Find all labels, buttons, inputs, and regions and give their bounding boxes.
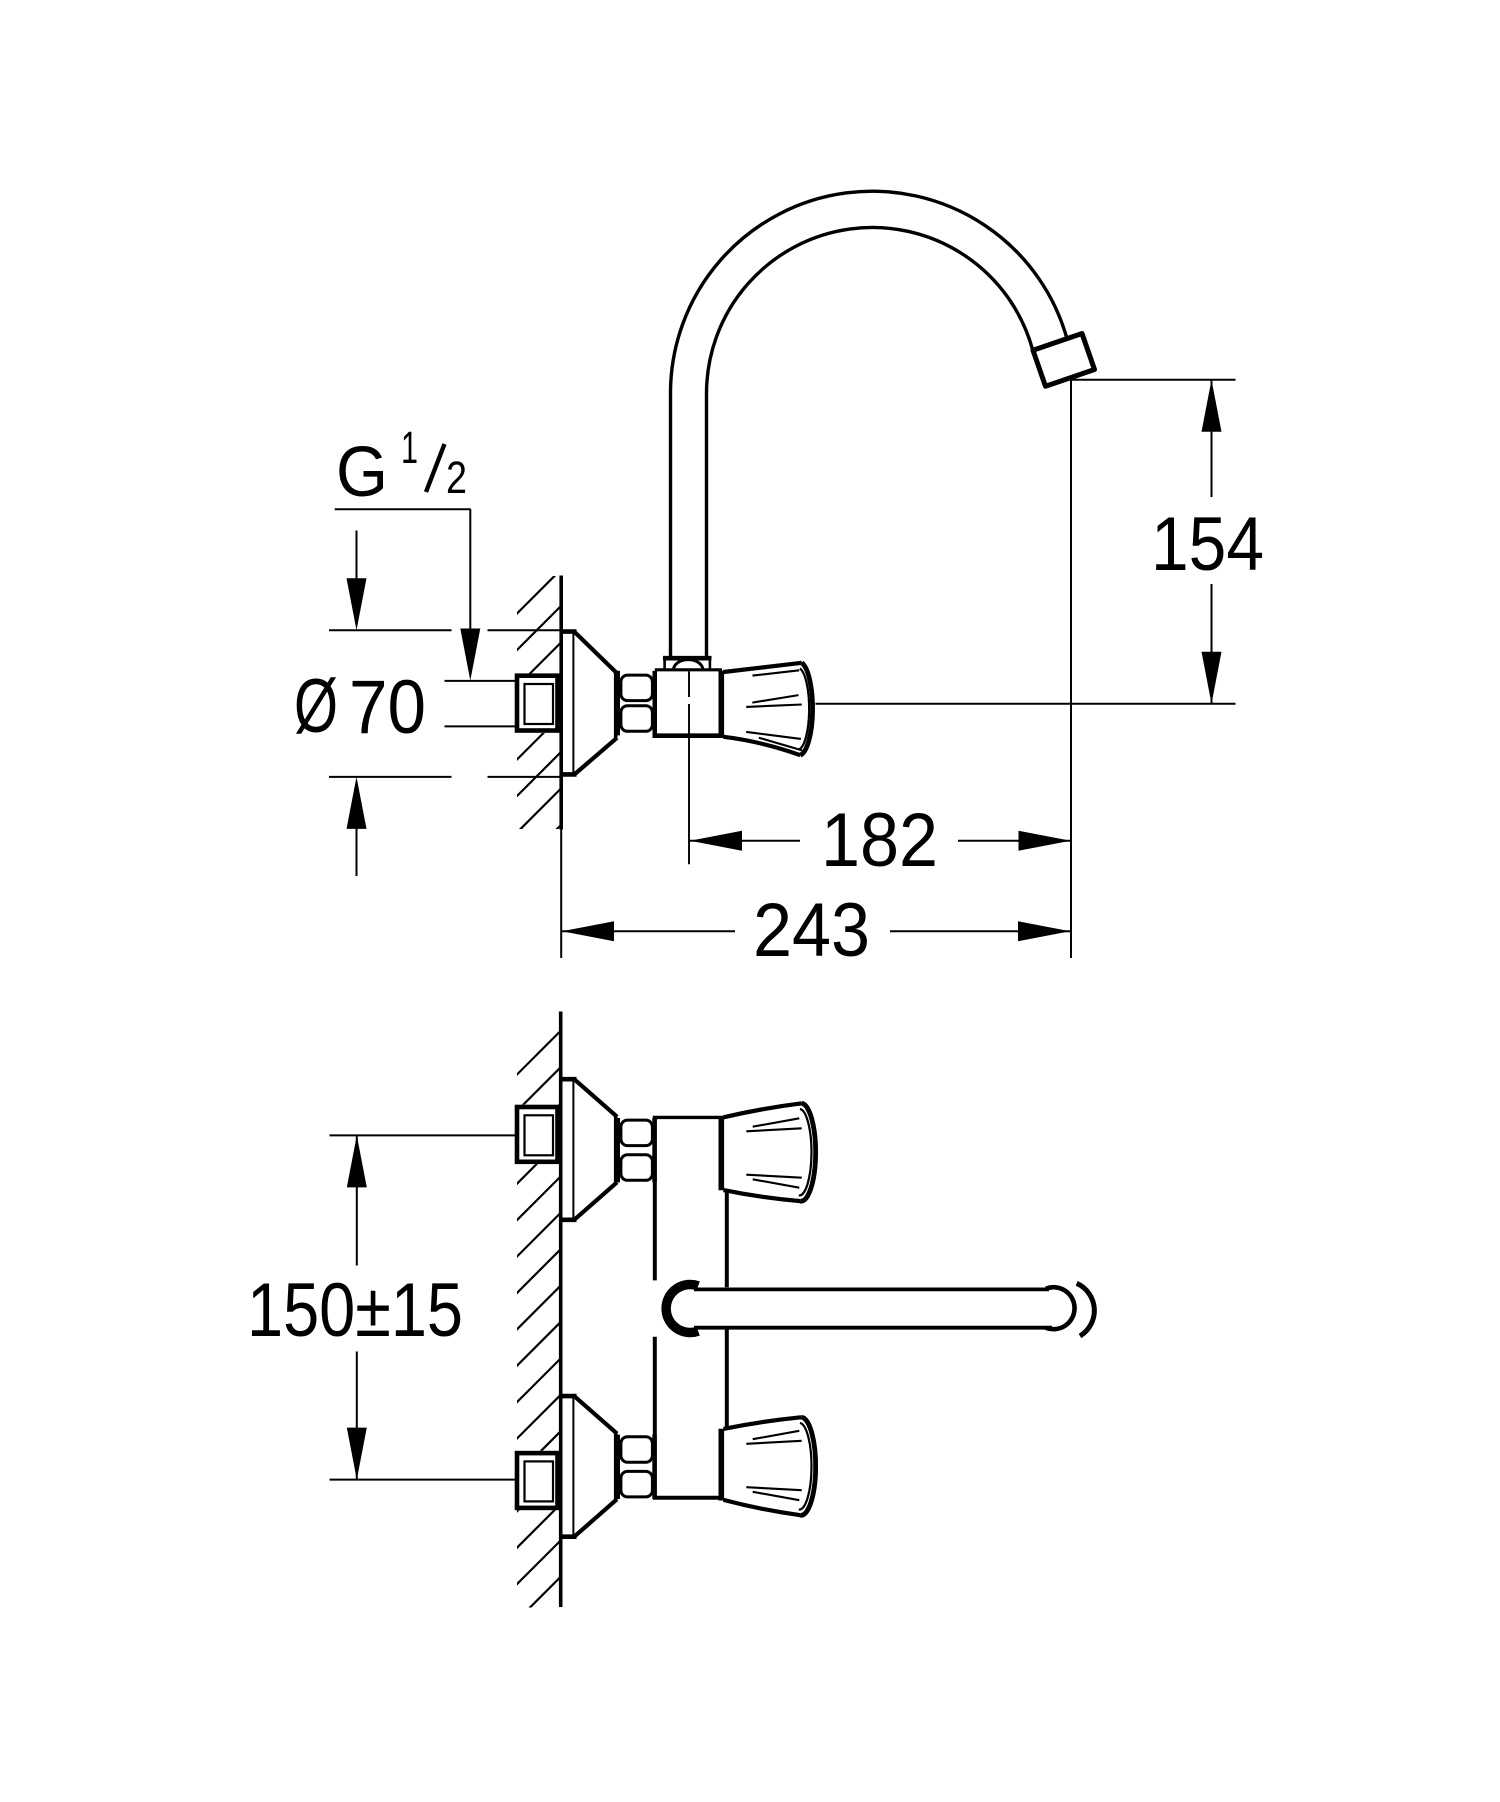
valve centre line [688, 672, 690, 865]
stub extension lines [445, 680, 517, 682]
243 dimension [560, 830, 562, 959]
escutcheon / rosette (upper view) [560, 630, 617, 776]
wall line (upper view) [559, 576, 563, 830]
gooseneck spout tube (outer edge) [670, 191, 1067, 657]
wall hatching (lower view) [516, 1030, 562, 1658]
154 dimension [1072, 379, 1236, 381]
escutcheon lower (plan view) [561, 1394, 616, 1538]
wall hatching (upper view) [516, 569, 562, 907]
handle lower (plan view) [724, 1417, 816, 1515]
handle upper (plan view) [724, 1103, 816, 1201]
union nut upper (plan view) [615, 1118, 620, 1182]
svg-text:182: 182 [821, 798, 938, 883]
svg-text:1: 1 [401, 422, 418, 473]
supply stub upper (plan view) [515, 1105, 560, 1165]
handle (upper view) [721, 663, 812, 755]
escutcheon extension lines (dia 70) [329, 629, 452, 631]
svg-text:154: 154 [1151, 502, 1264, 587]
union nut (upper view) [618, 671, 655, 736]
svg-text:Ø: Ø [294, 664, 338, 749]
valve body (upper view) [653, 670, 725, 736]
spout tube (plan view) [694, 1283, 1094, 1336]
150 +/- 15 dimension [330, 1134, 517, 1136]
svg-text:2: 2 [446, 452, 467, 503]
svg-text:70: 70 [349, 665, 426, 750]
dia 70 arrows [356, 531, 358, 587]
escutcheon upper (plan view) [561, 1078, 616, 1222]
G1/2 supply stub (upper view) [515, 674, 560, 734]
gooseneck spout tube (inner edge) [707, 227, 1033, 657]
182 dimension [1070, 380, 1072, 958]
svg-text:G: G [336, 433, 388, 512]
riser pipe collar nut [663, 658, 712, 670]
supply stub lower (plan view) [515, 1451, 560, 1511]
spout swivel joint (C ring) [666, 1285, 698, 1333]
svg-text:150±15: 150±15 [247, 1268, 463, 1353]
wall line (lower view) [559, 1012, 563, 1608]
aerator outlet piece [1033, 334, 1095, 387]
G 1/2 leader line [335, 508, 471, 510]
union nut lower (plan view) [615, 1435, 620, 1499]
svg-text:243: 243 [753, 888, 870, 973]
body slab (plan view) [653, 1117, 727, 1497]
